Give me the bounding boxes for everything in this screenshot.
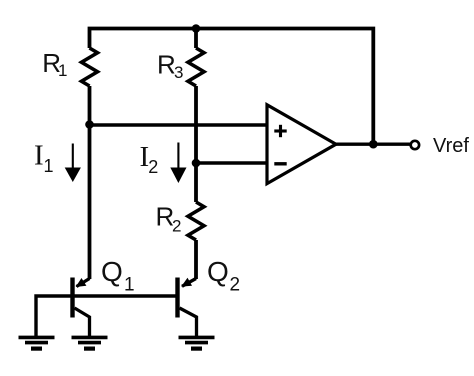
svg-text:Vref: Vref bbox=[433, 135, 469, 157]
svg-text:Q: Q bbox=[101, 256, 123, 287]
svg-text:Q: Q bbox=[207, 256, 229, 287]
svg-text:1: 1 bbox=[44, 156, 54, 176]
svg-text:I: I bbox=[34, 139, 44, 171]
svg-text:2: 2 bbox=[230, 275, 241, 296]
svg-text:3: 3 bbox=[174, 63, 183, 82]
svg-text:R: R bbox=[157, 50, 176, 80]
svg-text:1: 1 bbox=[124, 275, 135, 296]
svg-text:1: 1 bbox=[58, 61, 67, 80]
svg-text:2: 2 bbox=[172, 217, 181, 236]
svg-text:2: 2 bbox=[148, 157, 158, 177]
